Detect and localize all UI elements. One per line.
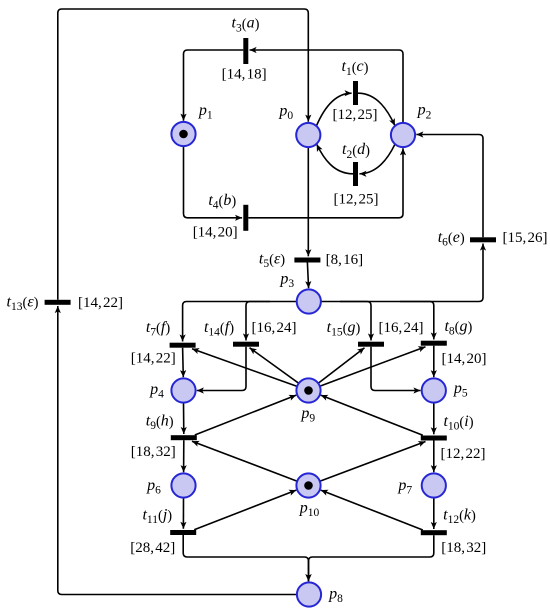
svg-text:t3(a): t3(a) [232,15,260,35]
svg-text:t2(d): t2(d) [342,141,370,161]
svg-text:p10: p10 [299,499,320,519]
svg-text:[18, 32]: [18, 32] [441,540,486,556]
svg-text:p6: p6 [146,477,161,497]
svg-text:p9: p9 [300,405,315,425]
svg-text:p1: p1 [198,102,213,122]
svg-text:t12(k): t12(k) [443,507,476,527]
svg-text:t4(b): t4(b) [208,192,236,212]
svg-text:p8: p8 [328,586,343,606]
svg-text:t15(g): t15(g) [327,319,361,339]
svg-text:p7: p7 [397,477,412,497]
svg-text:[15, 26]: [15, 26] [503,230,548,246]
svg-text:[14, 20]: [14, 20] [442,351,487,367]
svg-text:p3: p3 [279,270,294,290]
svg-text:[12, 25]: [12, 25] [334,191,379,207]
svg-text:t1(c): t1(c) [342,58,369,78]
svg-text:t7(f): t7(f) [146,319,171,339]
svg-text:t6(e): t6(e) [438,229,465,249]
svg-text:[14, 22]: [14, 22] [78,295,123,311]
svg-text:t8(g): t8(g) [444,318,472,338]
svg-text:t13(ε): t13(ε) [7,294,39,314]
svg-text:[14, 18]: [14, 18] [222,66,267,82]
svg-text:[28, 42]: [28, 42] [130,540,175,556]
svg-text:[16, 24]: [16, 24] [379,320,424,336]
svg-text:t9(h): t9(h) [146,412,174,432]
svg-text:p5: p5 [453,380,468,400]
svg-text:p0: p0 [278,102,293,122]
svg-text:[12, 25]: [12, 25] [333,107,378,123]
svg-text:t11(j): t11(j) [142,507,172,527]
svg-text:t5(ε): t5(ε) [259,250,285,270]
svg-text:[14, 22]: [14, 22] [131,351,176,367]
svg-text:t10(i): t10(i) [443,413,473,433]
svg-text:[14, 20]: [14, 20] [193,224,238,240]
svg-text:[12, 22]: [12, 22] [441,446,486,462]
svg-text:[8, 16]: [8, 16] [326,252,364,268]
svg-text:p2: p2 [417,102,432,122]
svg-text:p4: p4 [149,381,164,401]
svg-text:t14(f): t14(f) [204,319,234,339]
svg-text:[16, 24]: [16, 24] [252,320,297,336]
svg-text:[18, 32]: [18, 32] [131,444,176,460]
